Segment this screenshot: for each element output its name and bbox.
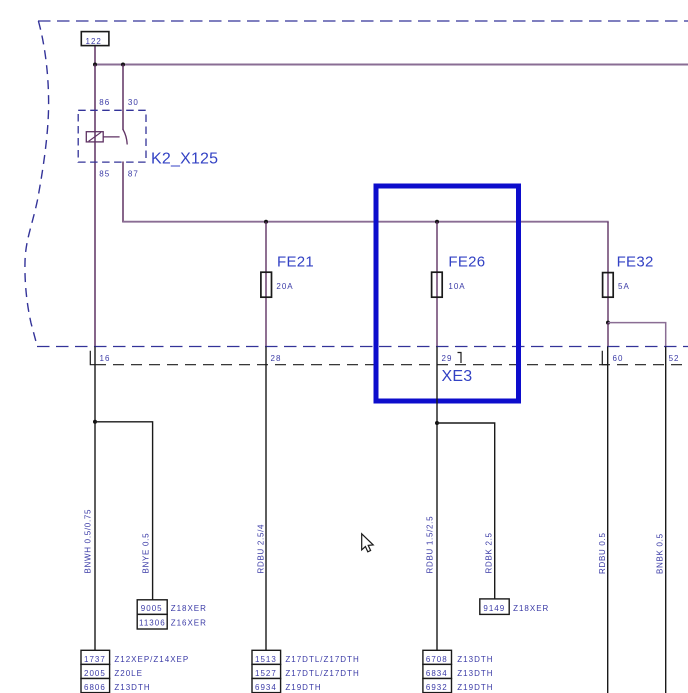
svg-text:6934: 6934	[255, 683, 277, 692]
connector boundary dashed line (row 2)	[95, 364, 688, 366]
wire: FE26 branch	[436, 222, 438, 347]
pin bracket 60	[602, 351, 607, 365]
svg-text:BNBK 0.5: BNBK 0.5	[656, 533, 665, 574]
svg-text:Z18XER: Z18XER	[171, 604, 207, 613]
svg-text:1527: 1527	[255, 669, 277, 678]
svg-text:Z13DTH: Z13DTH	[114, 683, 150, 692]
svg-text:5A: 5A	[618, 282, 630, 291]
svg-text:XE3: XE3	[442, 368, 473, 385]
torn page edge (dashed curve)	[25, 21, 49, 347]
node junction FE26 tap	[435, 220, 439, 224]
wire: RDBK 2.5 branch	[437, 423, 495, 599]
node junction BNYE tap	[93, 420, 97, 424]
svg-text:29: 29	[442, 354, 453, 363]
svg-text:Z13DTH: Z13DTH	[457, 669, 493, 678]
svg-text:RDBU 1.5/2.5: RDBU 1.5/2.5	[426, 516, 435, 574]
wire: 122 box down to feeder	[94, 46, 96, 65]
wire: FE32 branch	[607, 222, 609, 323]
wire: pin 60 segment	[607, 323, 609, 347]
svg-text:28: 28	[271, 354, 282, 363]
connector box 122	[81, 32, 109, 46]
svg-text:BNYE 0.5: BNYE 0.5	[142, 533, 151, 574]
connector box 9005/11306	[137, 600, 207, 629]
wire: fuse feeder horizontal	[123, 221, 609, 223]
svg-text:20A: 20A	[276, 282, 293, 291]
wire: BNYE branch	[95, 422, 153, 600]
svg-text:10A: 10A	[448, 282, 465, 291]
mouse cursor	[362, 534, 374, 552]
node junction FE21 tap	[264, 220, 268, 224]
harness boundary dashed line top	[38, 20, 688, 22]
wire: RDBU 1.5/2.5 down	[436, 347, 438, 651]
svg-text:Z19DTH: Z19DTH	[285, 683, 321, 692]
svg-text:Z16XER: Z16XER	[171, 619, 207, 628]
svg-text:2005: 2005	[84, 669, 106, 678]
fuse FE32	[603, 254, 654, 298]
svg-text:6834: 6834	[426, 669, 448, 678]
node junction at 122 drop	[93, 63, 97, 67]
connector box 9149	[480, 599, 550, 615]
svg-text:1513: 1513	[255, 655, 277, 664]
svg-text:Z18XER: Z18XER	[513, 604, 549, 613]
svg-text:RDBK 2.5: RDBK 2.5	[485, 532, 494, 573]
wire: BNWH main down	[94, 347, 96, 651]
svg-text:9149: 9149	[483, 604, 505, 613]
svg-text:FE32: FE32	[617, 254, 654, 271]
wire: branch to pin 52	[608, 323, 666, 347]
wire: RDBU 2.5/4 down	[265, 347, 267, 651]
wire: FE21 branch	[265, 222, 267, 347]
svg-text:FE21: FE21	[277, 254, 314, 271]
svg-text:9005: 9005	[141, 604, 163, 613]
wire: top horizontal feeder	[94, 64, 688, 66]
svg-text:87: 87	[128, 169, 139, 178]
svg-text:1737: 1737	[84, 655, 106, 664]
wire: relay coil wire (pin 86 to 85 and down)	[94, 65, 96, 347]
svg-text:6806: 6806	[84, 683, 106, 692]
svg-text:6932: 6932	[426, 683, 448, 692]
svg-text:6708: 6708	[426, 655, 448, 664]
svg-text:Z20LE: Z20LE	[114, 669, 143, 678]
pin bracket 16	[90, 351, 95, 365]
svg-text:BNWH 0.5/0.75: BNWH 0.5/0.75	[84, 509, 93, 574]
connector box 1513/1527/6934	[252, 650, 360, 692]
svg-text:Z19DTH: Z19DTH	[457, 683, 493, 692]
svg-text:86: 86	[99, 98, 110, 107]
svg-text:FE26: FE26	[448, 254, 485, 271]
svg-text:11306: 11306	[139, 619, 166, 628]
svg-text:16: 16	[100, 354, 111, 363]
connector XE3 bold box	[376, 186, 519, 401]
relay K2_X125 dashed box	[78, 110, 146, 162]
fuse FE21	[261, 254, 314, 298]
svg-text:Z17DTL/Z17DTH: Z17DTL/Z17DTH	[285, 669, 359, 678]
wire: relay pin 87 down to feeder 2	[122, 162, 124, 223]
svg-text:52: 52	[669, 354, 680, 363]
svg-text:Z12XEP/Z14XEP: Z12XEP/Z14XEP	[114, 655, 189, 664]
svg-text:RDBU 0.5: RDBU 0.5	[598, 532, 607, 574]
relay switch blade	[123, 130, 127, 145]
svg-text:RDBU 2.5/4: RDBU 2.5/4	[257, 524, 266, 574]
harness boundary dashed line (row 1)	[37, 346, 688, 348]
fuse FE26	[432, 254, 486, 298]
svg-text:122: 122	[86, 37, 102, 46]
wire: BNBK 0.5 down	[665, 347, 667, 693]
svg-text:K2_X125: K2_X125	[151, 151, 218, 168]
wire: RDBU 0.5 down	[607, 347, 609, 693]
connector box 1737/2005/6806	[81, 650, 189, 692]
connector box 6708/6834/6932	[423, 650, 494, 692]
svg-text:Z17DTL/Z17DTH: Z17DTL/Z17DTH	[285, 655, 359, 664]
wire: coil to switch link	[103, 136, 119, 138]
svg-text:30: 30	[128, 98, 139, 107]
pin bracket 29	[458, 353, 462, 364]
relay coil	[86, 132, 103, 142]
node junction RDBK tap	[435, 421, 439, 425]
node junction at relay feed	[121, 63, 125, 67]
wire: relay pin 30 drop	[122, 65, 124, 131]
svg-text:Z13DTH: Z13DTH	[457, 655, 493, 664]
node junction below FE32	[606, 321, 610, 325]
svg-text:60: 60	[613, 354, 624, 363]
svg-text:85: 85	[99, 169, 110, 178]
